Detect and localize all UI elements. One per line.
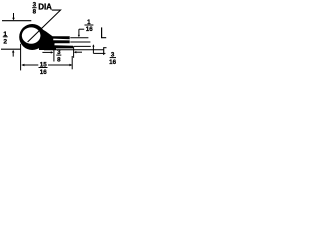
svg-text:16: 16	[40, 69, 47, 76]
tab mass and layered strips	[39, 27, 73, 50]
15/16 dimension right extension line	[71, 56, 73, 69]
3/8 bottom dimension right extension line	[73, 46, 75, 58]
dimension 1/2 down arrow	[12, 13, 15, 20]
15/16 dimension left extension line	[20, 44, 22, 71]
dimension 1/2 bottom extension line	[1, 48, 21, 50]
label 15/16	[39, 61, 48, 76]
3/8 bottom left arrow	[42, 51, 53, 53]
dimension 1/2 top extension line	[2, 20, 31, 22]
1/16 callout bracket and down arrow	[78, 29, 84, 37]
svg-text:2: 2	[3, 38, 7, 45]
3/8 bottom right arrow	[74, 51, 82, 53]
extension line from upper strip tip	[70, 37, 88, 39]
right angle mark at part bottom line level	[104, 47, 107, 55]
label 3/8 bottom	[56, 49, 61, 64]
3/8 bottom dimension left extension line	[53, 48, 55, 62]
extension line from lower strip tip	[74, 45, 91, 47]
label 3/8 DIA	[32, 1, 52, 15]
3/16 dimension up arrow and foot	[92, 44, 105, 53]
eyelet hole	[22, 27, 41, 43]
svg-text:16: 16	[86, 26, 93, 33]
15/16 left arrow segment	[21, 64, 38, 66]
svg-text:16: 16	[109, 59, 116, 66]
label 1/16	[85, 19, 94, 33]
eyelet ring (outer disk)	[19, 24, 45, 50]
dimension 1/2 up arrow	[12, 50, 15, 57]
extension line from part bottom	[44, 49, 103, 51]
svg-text:8: 8	[57, 56, 61, 63]
leader line from DIA label through hole	[28, 10, 61, 42]
label 3/16	[109, 51, 116, 66]
right angle mark at upper strip line level	[102, 27, 107, 38]
extension line from middle strip tip	[70, 41, 90, 43]
label 1/2	[3, 31, 8, 46]
svg-text:8: 8	[33, 8, 37, 15]
svg-text:DIA: DIA	[38, 2, 52, 11]
15/16 right arrow segment	[48, 64, 73, 66]
